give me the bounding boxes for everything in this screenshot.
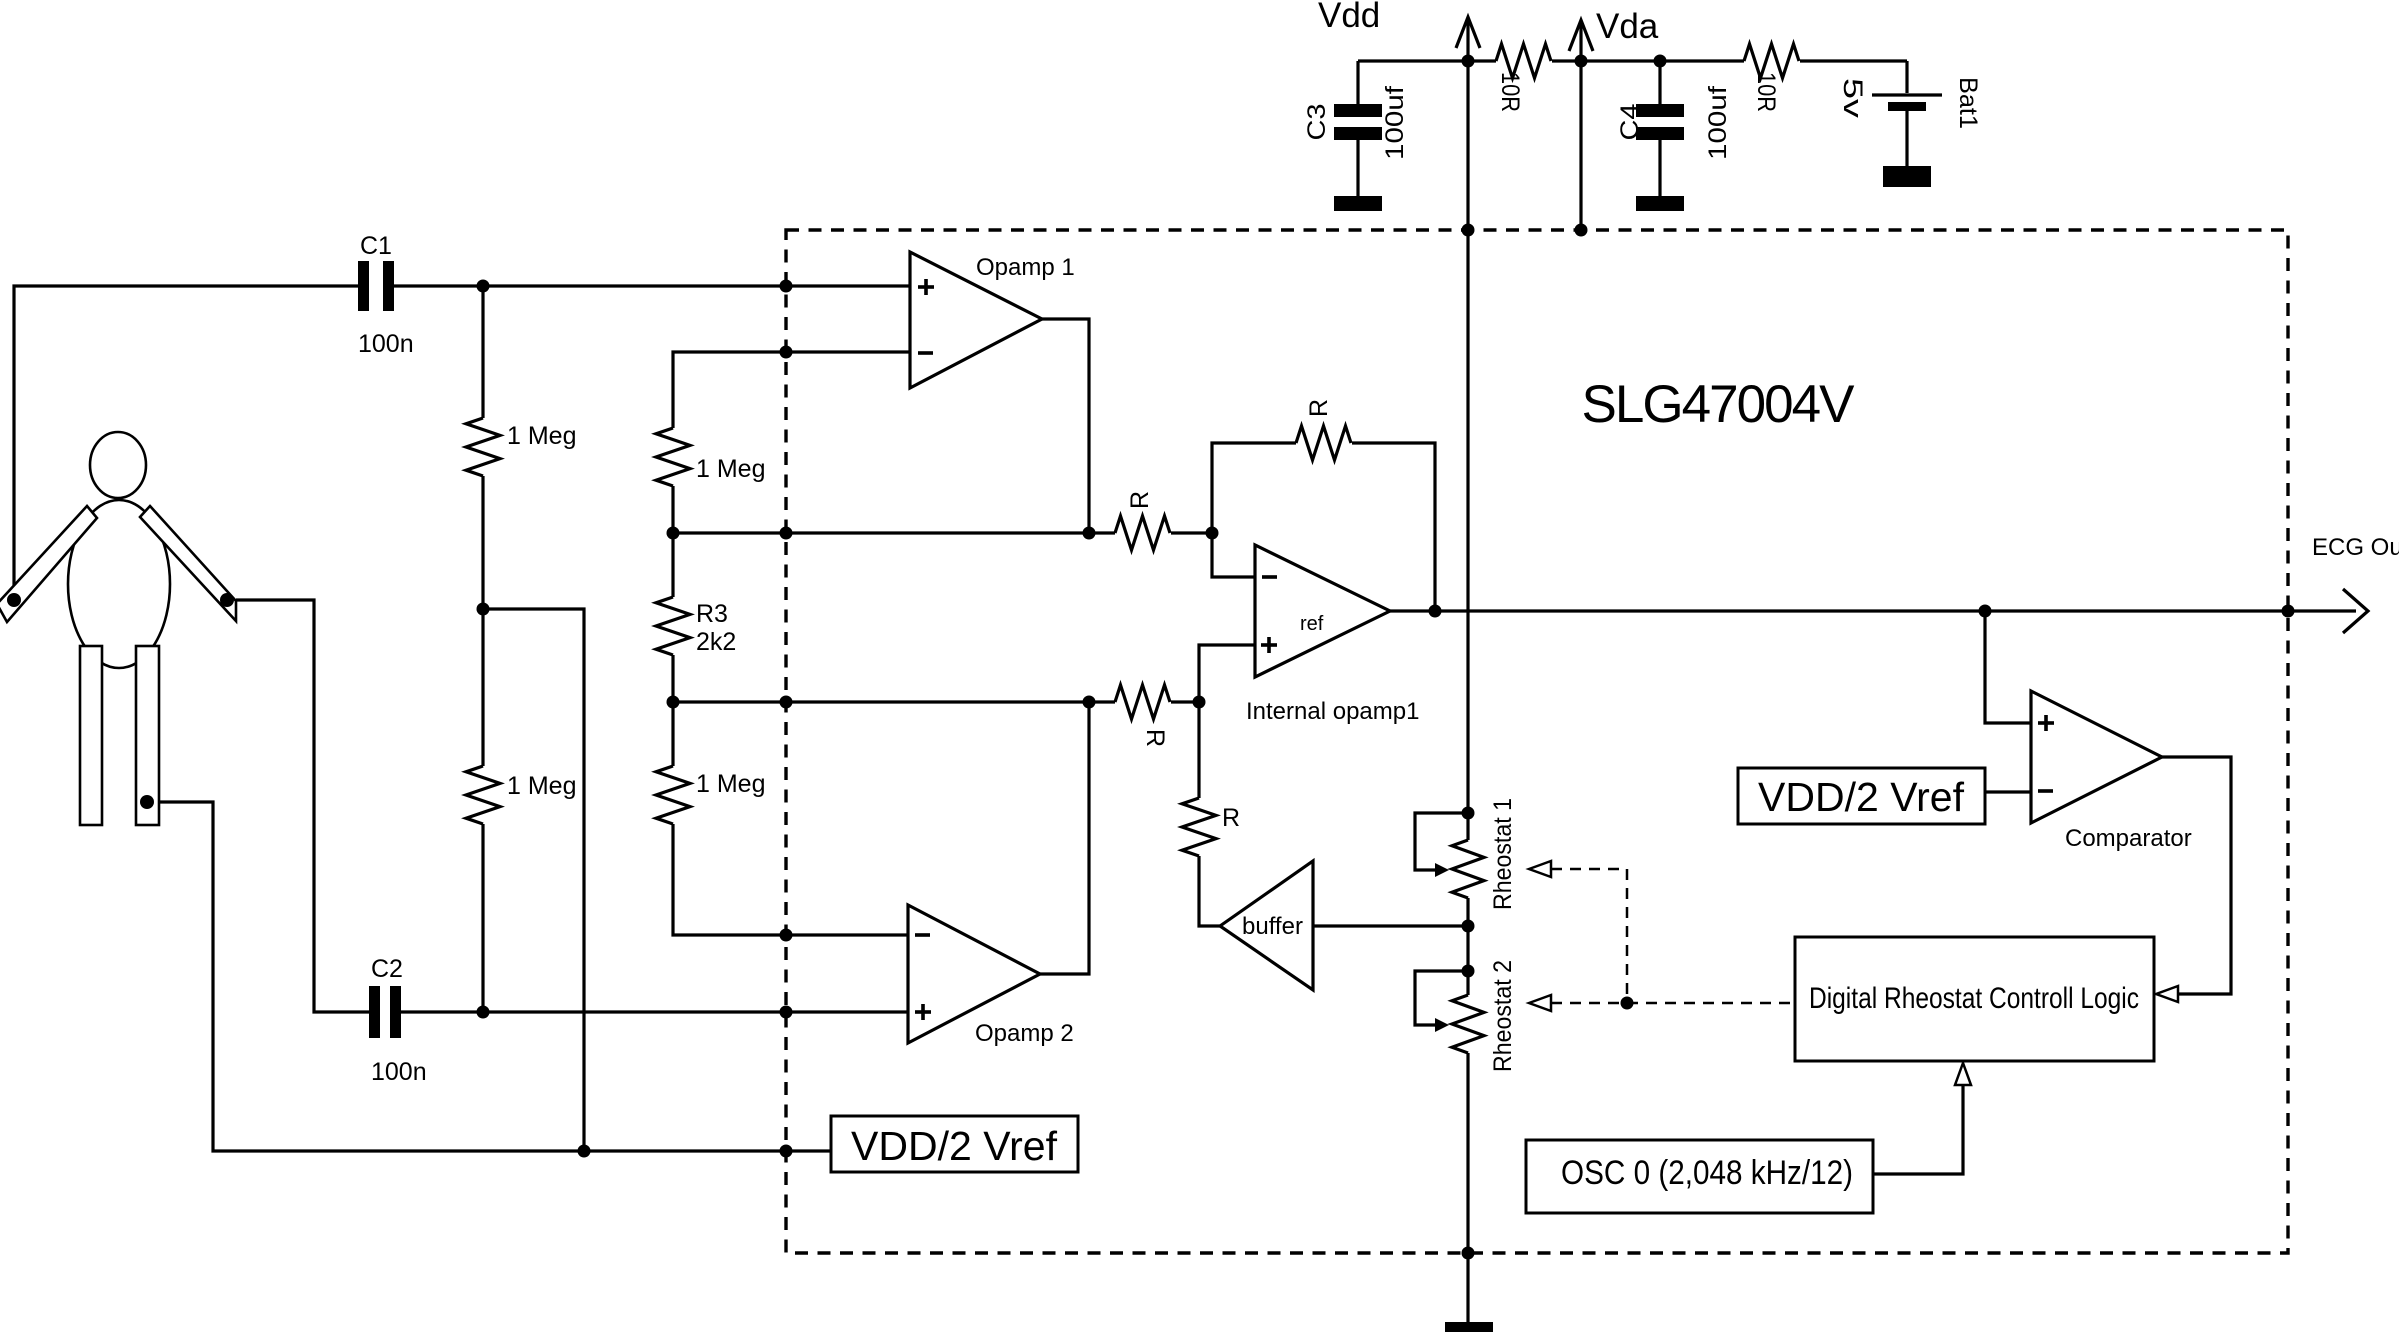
rheostat 1 zigzag xyxy=(1452,840,1484,898)
svg-text:C2: C2 xyxy=(371,955,403,983)
power symbol Vda arrow xyxy=(1569,20,1593,51)
wire between 1Meg and R3 xyxy=(671,486,674,597)
resistor R3 2k2 xyxy=(656,597,690,655)
op-amp Comparator xyxy=(2031,691,2162,823)
svg-text:Vdd: Vdd xyxy=(1318,0,1380,35)
svg-text:5v: 5v xyxy=(1838,78,1868,119)
svg-text:R: R xyxy=(1126,491,1154,509)
wire left-arm electrode to C1 xyxy=(14,286,358,600)
op-amp Opamp 1 xyxy=(910,252,1042,388)
control dashed line rheostat 1 xyxy=(1551,869,1795,1003)
wire R to node xyxy=(1171,531,1212,534)
wire Opamp2 output up xyxy=(1040,702,1089,974)
svg-text:VDD/2 Vref: VDD/2 Vref xyxy=(851,1123,1058,1169)
wire feedback to output node xyxy=(1352,443,1435,611)
resistor R (buffer leg) xyxy=(1182,798,1216,856)
wire Vda stub xyxy=(1579,21,1582,230)
human left arm xyxy=(0,506,97,622)
wire node row y702 xyxy=(673,700,1115,703)
capacitor C3 xyxy=(1356,61,1359,104)
battery Bat1 short plate xyxy=(1888,102,1926,111)
wire buffer to rheostat tap xyxy=(1313,924,1468,927)
svg-text:100n: 100n xyxy=(371,1058,427,1086)
svg-text:R: R xyxy=(1305,399,1333,417)
Internal - xyxy=(1262,575,1277,579)
svg-text:Bat1: Bat1 xyxy=(1954,77,1982,129)
wire top power rail Vdd/Vda xyxy=(1358,59,1496,62)
human right leg xyxy=(136,646,159,825)
battery Bat1 xyxy=(1905,61,1908,93)
rheostat 1 wiper arrowhead xyxy=(1435,863,1449,877)
electrode left arm xyxy=(7,593,21,607)
ground C4 xyxy=(1636,196,1684,211)
svg-text:Rheostat 2: Rheostat 2 xyxy=(1489,960,1517,1072)
wire R to node y702 xyxy=(1171,700,1199,703)
wire node to internal - input xyxy=(1212,533,1255,577)
arrow comparator into logic xyxy=(2156,986,2178,1002)
svg-text:Opamp 1: Opamp 1 xyxy=(976,254,1075,281)
wire ECG output row xyxy=(1390,609,2356,612)
control arrow at rheostat 1 xyxy=(1529,861,1551,877)
wire 1Meg mid node xyxy=(481,476,484,609)
svg-text:SLG47004V: SLG47004V xyxy=(1582,375,1856,434)
wire node down to R buffer xyxy=(1197,702,1200,798)
wire comparator + input xyxy=(1985,611,2031,723)
human right arm xyxy=(140,506,236,621)
wire 1Meg column top xyxy=(481,286,484,418)
Opamp2 + xyxy=(915,1010,931,1014)
resistor 1 Meg (middle lower) xyxy=(656,766,690,824)
control dashed line rheostat 2 xyxy=(1551,1002,1795,1005)
Opamp1 - xyxy=(918,351,933,355)
plus/minus pin marks xyxy=(915,279,2054,1020)
wire Vdd vertical rail xyxy=(1466,18,1469,840)
rheostat 2 wiper arrowhead xyxy=(1435,1018,1449,1032)
electrode leg xyxy=(140,795,154,809)
wire comparator - input xyxy=(1985,790,2031,793)
human body xyxy=(68,500,170,668)
resistor R (to internal - ) xyxy=(1115,516,1170,550)
svg-text:R: R xyxy=(1222,804,1240,832)
svg-text:100uf: 100uf xyxy=(1704,86,1732,160)
human left leg xyxy=(80,646,102,825)
svg-text:OSC 0 (2,048 kHz/12): OSC 0 (2,048 kHz/12) xyxy=(1561,1154,1853,1192)
wire middle column to Opamp2 - input xyxy=(673,824,910,935)
svg-text:ECG Out: ECG Out xyxy=(2312,534,2399,561)
resistor 10R (right) xyxy=(1744,44,1799,78)
wire right-arm electrode to C2 xyxy=(236,600,369,1012)
human figure xyxy=(0,432,236,825)
electrode right arm xyxy=(220,593,234,607)
resistor 1 Meg (middle upper) xyxy=(656,428,690,486)
arrow ECG out xyxy=(2343,589,2368,633)
svg-text:R3: R3 xyxy=(696,600,728,628)
Opamp2 - xyxy=(915,933,930,937)
svg-text:R: R xyxy=(1141,729,1169,747)
op-amp Opamp 2 xyxy=(908,905,1040,1043)
svg-text:C3: C3 xyxy=(1303,104,1331,141)
svg-text:1 Meg: 1 Meg xyxy=(507,772,576,800)
svg-text:Rheostat 1: Rheostat 1 xyxy=(1489,798,1517,910)
svg-text:ref: ref xyxy=(1300,613,1324,635)
wire feedback loop up xyxy=(1212,443,1296,533)
wire between R3 and lower 1Meg xyxy=(671,655,674,766)
resistor R (to internal + ) xyxy=(1115,685,1170,719)
wire lower 1Meg to C2 rail xyxy=(481,824,484,1012)
resistor R (feedback) xyxy=(1296,426,1351,460)
svg-text:Vda: Vda xyxy=(1596,7,1659,46)
Comparator + xyxy=(2038,721,2054,725)
box OSC 0 xyxy=(1526,1140,1873,1213)
capacitor C2 plates xyxy=(369,986,380,1038)
capacitor C4 plates xyxy=(1636,104,1684,117)
wire R to buffer tip xyxy=(1199,856,1220,926)
wire comparator output to logic xyxy=(2162,757,2231,994)
capacitor C1 plates xyxy=(358,261,369,311)
svg-text:Comparator: Comparator xyxy=(2065,825,2192,852)
wire Opamp1 output down xyxy=(1042,319,1089,533)
svg-text:Digital Rheostat Controll Logi: Digital Rheostat Controll Logic xyxy=(1809,982,2139,1015)
wire C1 to Opamp1 + input xyxy=(394,284,910,287)
svg-text:VDD/2 Vref: VDD/2 Vref xyxy=(1758,774,1965,820)
rheostat 1 wiper xyxy=(1415,813,1468,870)
buffer triangle xyxy=(1220,861,1313,990)
wire C2 to Opamp2 + input xyxy=(401,1010,910,1013)
arrow OSC into logic xyxy=(1955,1063,1971,1085)
resistor 1 Meg (left upper) xyxy=(466,418,500,476)
svg-text:Opamp 2: Opamp 2 xyxy=(975,1020,1074,1047)
Internal + xyxy=(1261,643,1277,647)
human head xyxy=(90,432,146,498)
box VDD/2 Vref (right) xyxy=(1738,768,1985,824)
control arrow at rheostat 2 xyxy=(1529,995,1551,1011)
resistor 10R (left) xyxy=(1496,44,1551,78)
svg-text:100uf: 100uf xyxy=(1381,86,1409,160)
wire internal + input xyxy=(1199,645,1255,702)
svg-text:1 Meg: 1 Meg xyxy=(696,770,765,798)
wire node row y533 xyxy=(673,531,1115,534)
rheostat 2 zigzag xyxy=(1452,995,1484,1053)
svg-text:100n: 100n xyxy=(358,330,414,358)
svg-text:10R: 10R xyxy=(1496,72,1524,112)
svg-text:1 Meg: 1 Meg xyxy=(696,455,765,483)
wire OSC to logic xyxy=(1873,1084,1963,1174)
svg-text:1 Meg: 1 Meg xyxy=(507,422,576,450)
svg-text:C1: C1 xyxy=(360,232,392,260)
svg-text:2k2: 2k2 xyxy=(696,628,736,656)
capacitor C3 plates xyxy=(1334,104,1382,117)
rheostat 2 wiper xyxy=(1415,971,1468,1025)
wire node to drop x584 xyxy=(483,609,584,1151)
ground C3 xyxy=(1334,196,1382,211)
op-amp Internal opamp1 xyxy=(1255,545,1390,677)
ground battery xyxy=(1883,166,1931,187)
wire node down to lower 1Meg xyxy=(481,609,484,766)
ground bottom rail xyxy=(1445,1322,1493,1332)
wire middle column to Opamp1 - input xyxy=(673,352,910,428)
svg-text:Internal opamp1: Internal opamp1 xyxy=(1246,698,1419,725)
svg-text:10R: 10R xyxy=(1752,72,1780,112)
resistor 1 Meg (left lower) xyxy=(466,766,500,824)
svg-text:C4: C4 xyxy=(1616,103,1644,140)
power symbol Vdd arrow xyxy=(1456,17,1480,48)
box VDD/2 Vref (bottom) xyxy=(831,1116,1078,1172)
svg-text:buffer: buffer xyxy=(1242,913,1303,940)
wire leg electrode to VDD/2 Vref xyxy=(147,802,831,1151)
Opamp1 + xyxy=(918,285,934,289)
capacitor C4 xyxy=(1658,61,1661,104)
box Digital Rheostat Controll Logic xyxy=(1795,937,2154,1061)
Comparator - xyxy=(2038,789,2053,793)
IC boundary dashed box SLG47004V xyxy=(786,230,2288,1253)
